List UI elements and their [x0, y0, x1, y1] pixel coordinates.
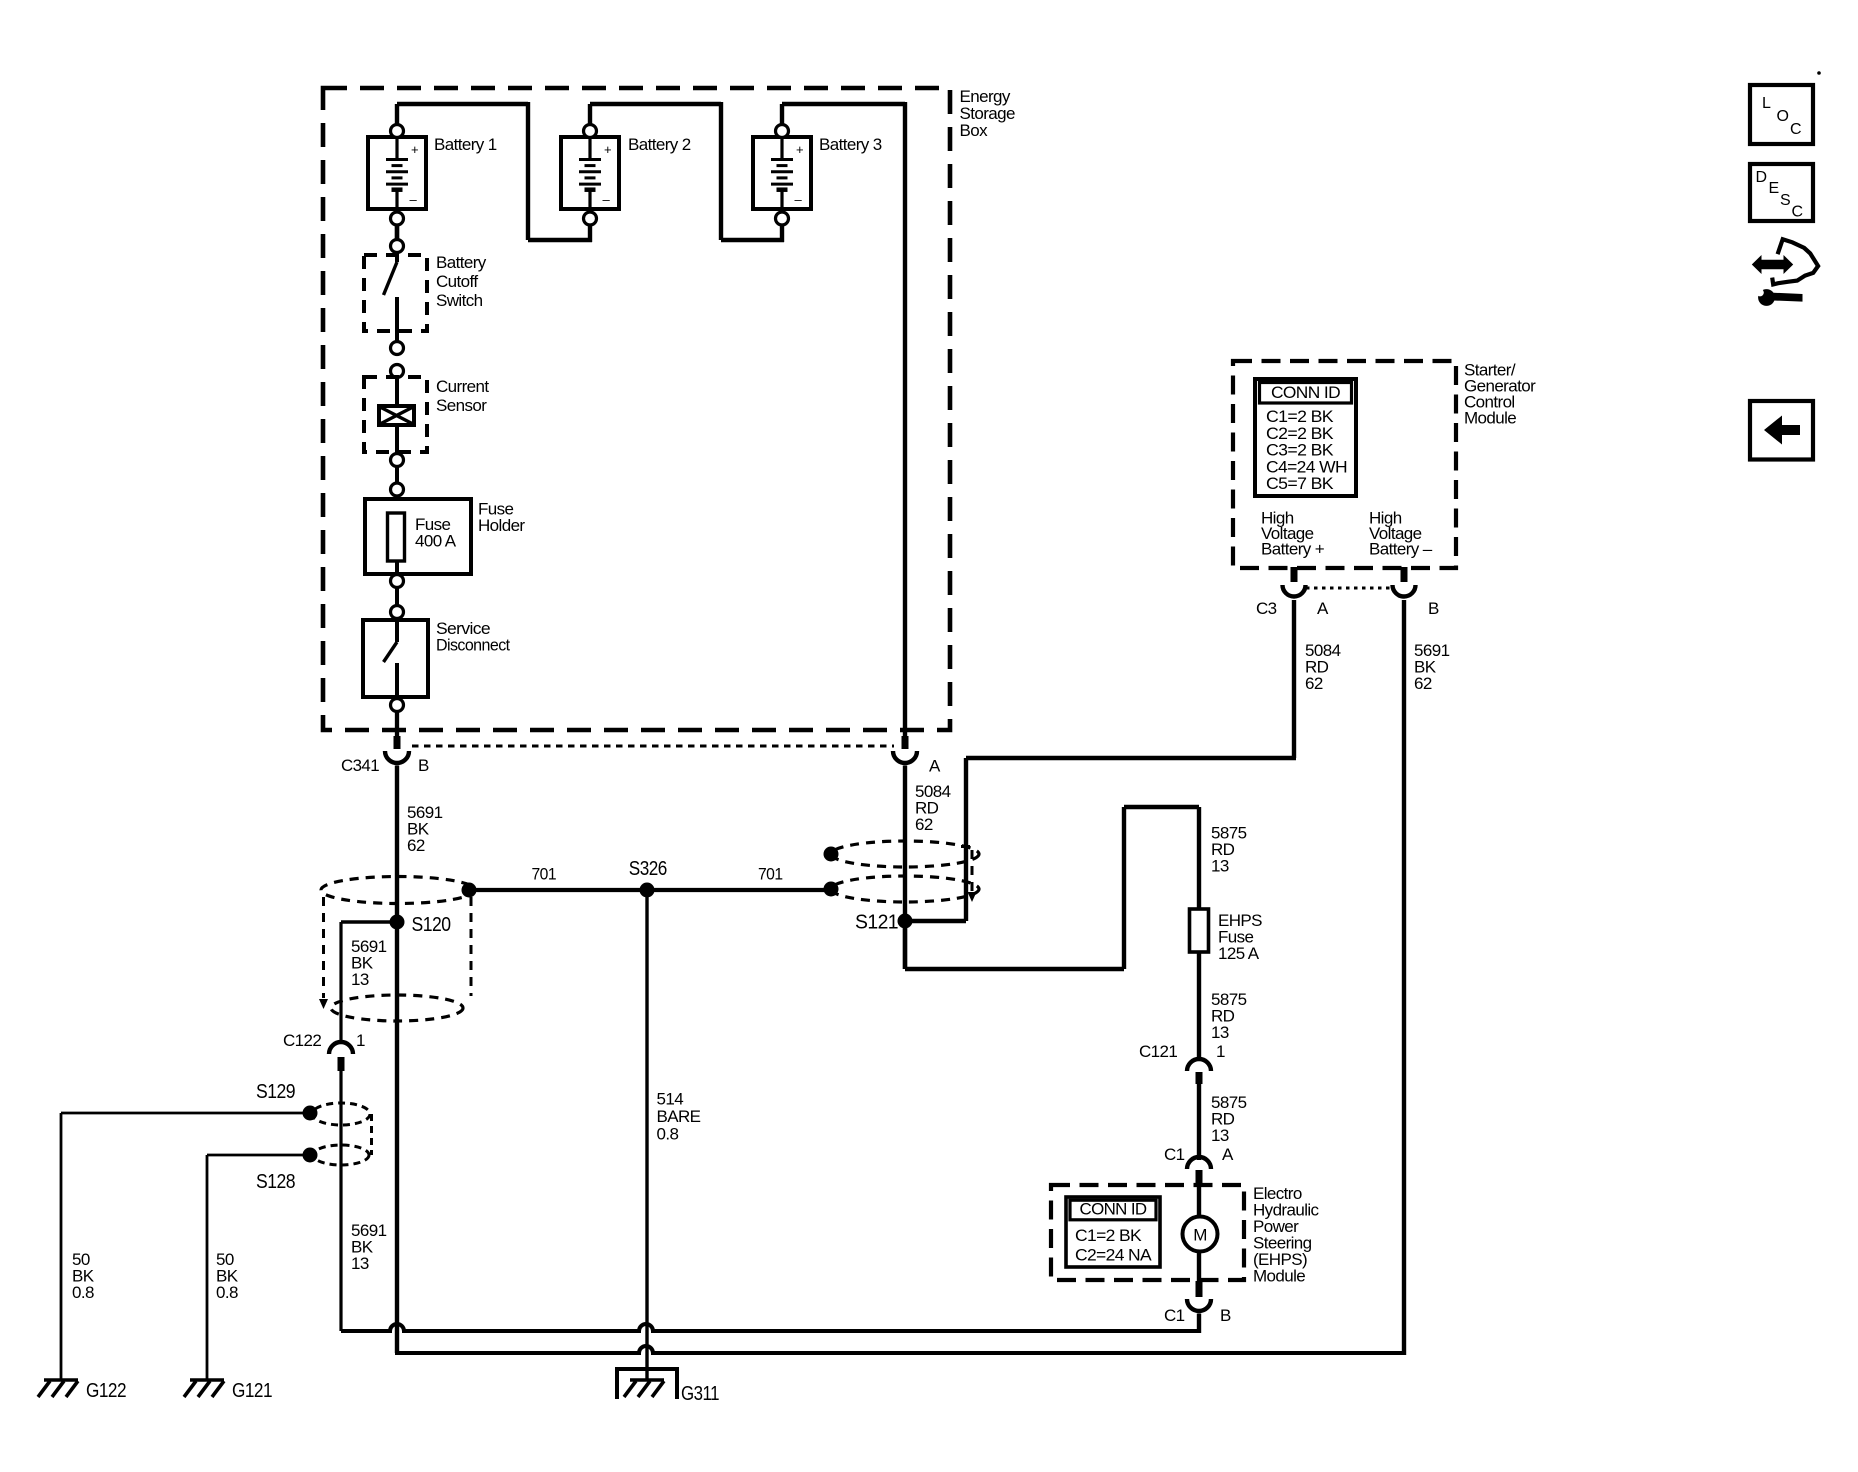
svg-text:C1: C1	[1164, 1306, 1185, 1325]
svg-text:Module: Module	[1253, 1267, 1305, 1286]
svg-text:125 A: 125 A	[1218, 944, 1260, 963]
svg-text:B: B	[1428, 599, 1439, 618]
svg-text:A: A	[1222, 1145, 1234, 1164]
svg-text:13: 13	[1211, 856, 1229, 875]
svg-text:Holder: Holder	[478, 516, 525, 535]
svg-text:701: 701	[758, 865, 783, 884]
svg-text:O: O	[1777, 108, 1789, 125]
svg-text:0.8: 0.8	[72, 1283, 94, 1302]
svg-text:B: B	[1220, 1306, 1231, 1325]
svg-text:A: A	[929, 757, 941, 776]
svg-text:0.8: 0.8	[657, 1125, 679, 1144]
svg-text:C1: C1	[1164, 1145, 1185, 1164]
svg-text:D: D	[1756, 169, 1767, 186]
svg-text:C: C	[1790, 121, 1801, 138]
svg-text:Disconnect: Disconnect	[436, 637, 510, 655]
svg-text:701: 701	[532, 865, 557, 884]
svg-text:G122: G122	[86, 1380, 126, 1402]
svg-text:BARE: BARE	[657, 1107, 701, 1126]
svg-text:C1=2 BK: C1=2 BK	[1075, 1227, 1142, 1245]
svg-text:M: M	[1193, 1226, 1207, 1245]
svg-text:13: 13	[1211, 1126, 1229, 1145]
svg-text:400 A: 400 A	[415, 532, 457, 551]
svg-text:S129: S129	[256, 1081, 295, 1103]
svg-text:L: L	[1762, 95, 1771, 112]
svg-text:62: 62	[407, 836, 425, 855]
svg-text:+: +	[411, 142, 418, 157]
svg-text:Battery 2: Battery 2	[628, 135, 691, 154]
svg-text:13: 13	[351, 970, 369, 989]
svg-text:S326: S326	[629, 858, 667, 880]
svg-text:S128: S128	[256, 1171, 295, 1193]
svg-text:A: A	[1317, 599, 1329, 618]
svg-text:G311: G311	[681, 1383, 719, 1405]
svg-text:62: 62	[1414, 674, 1432, 693]
svg-text:CONN ID: CONN ID	[1080, 1201, 1148, 1219]
svg-text:C5=7 BK: C5=7 BK	[1266, 474, 1334, 493]
svg-text:E: E	[1769, 180, 1779, 197]
svg-text:S: S	[1780, 192, 1790, 209]
svg-text:C3: C3	[1256, 599, 1277, 618]
svg-text:C341: C341	[341, 756, 379, 775]
svg-text:Sensor: Sensor	[436, 396, 487, 415]
svg-text:Switch: Switch	[436, 291, 483, 310]
svg-text:C122: C122	[283, 1031, 321, 1050]
svg-text:13: 13	[1211, 1023, 1229, 1042]
svg-text:Battery: Battery	[436, 253, 487, 272]
svg-text:1: 1	[356, 1031, 365, 1050]
svg-text:S121: S121	[855, 912, 898, 934]
svg-text:13: 13	[351, 1254, 369, 1273]
svg-text:Battery +: Battery +	[1261, 540, 1325, 559]
svg-text:C: C	[1792, 204, 1803, 221]
svg-text:S120: S120	[412, 914, 451, 936]
svg-text:Box: Box	[960, 121, 989, 140]
svg-text:B: B	[418, 756, 429, 775]
svg-text:Battery –: Battery –	[1369, 540, 1433, 559]
svg-text:C2=24 NA: C2=24 NA	[1075, 1247, 1152, 1265]
svg-text:Service: Service	[436, 620, 490, 638]
svg-text:514: 514	[657, 1090, 684, 1109]
svg-text:0.8: 0.8	[216, 1283, 238, 1302]
svg-text:Module: Module	[1464, 409, 1516, 428]
svg-text:Cutoff: Cutoff	[436, 272, 478, 291]
svg-text:Battery 3: Battery 3	[819, 135, 882, 154]
svg-text:+: +	[796, 142, 803, 157]
svg-text:C121: C121	[1139, 1042, 1177, 1061]
svg-text:1: 1	[1216, 1042, 1225, 1061]
svg-text:+: +	[604, 142, 611, 157]
svg-text:62: 62	[915, 815, 933, 834]
svg-text:CONN ID: CONN ID	[1271, 383, 1340, 402]
svg-text:Current: Current	[436, 377, 489, 396]
svg-text:62: 62	[1305, 674, 1323, 693]
svg-text:G121: G121	[232, 1380, 272, 1402]
svg-text:Battery 1: Battery 1	[434, 135, 497, 154]
